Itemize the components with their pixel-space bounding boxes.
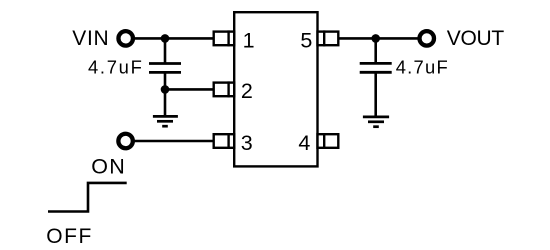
svg-text:2: 2 [241,79,253,103]
svg-text:5: 5 [300,29,312,53]
op-amp U1 (5-pin IC body) [234,12,317,166]
wire junction down to C1 [164,38,167,63]
svg-text:ON: ON [91,155,126,179]
svg-text:1: 1 [243,29,255,53]
ON/OFF step waveform [48,183,127,212]
VIN terminal [118,31,133,46]
wire C1 to pin-2 node [164,72,167,89]
wire ON/OFF terminal to pin 3 [134,140,214,143]
pin 3 [214,133,235,149]
wire VIN to pin 1 [134,37,214,40]
wire pin 5 to VOUT [338,37,418,40]
node VOUT junction [371,34,380,43]
svg-text:OFF: OFF [46,225,93,248]
wire junction to pin 2 [165,88,214,91]
ON/OFF terminal [118,134,133,149]
svg-text:VOUT: VOUT [447,27,505,50]
wire junction down to ground [164,89,167,116]
pin 5 [318,30,339,46]
svg-text:4.7uF: 4.7uF [396,57,449,78]
wire C2 down to ground [374,72,377,117]
ground (output side) [363,117,389,127]
VOUT terminal [420,31,435,46]
capacitor C2 (output 4.7uF) [360,63,392,72]
svg-text:4.7uF: 4.7uF [88,57,144,78]
svg-text:4: 4 [298,131,310,155]
capacitor C1 (input 4.7uF) [149,64,181,73]
svg-text:3: 3 [241,131,253,155]
pin 2 [214,81,235,97]
svg-text:VIN: VIN [72,27,109,50]
ground (input side) [153,116,178,126]
node pin-2 junction [161,85,170,94]
wire junction down to C2 [374,38,377,63]
pin 4 [318,133,339,149]
pin 1 [214,30,235,46]
node VIN junction [161,34,170,43]
